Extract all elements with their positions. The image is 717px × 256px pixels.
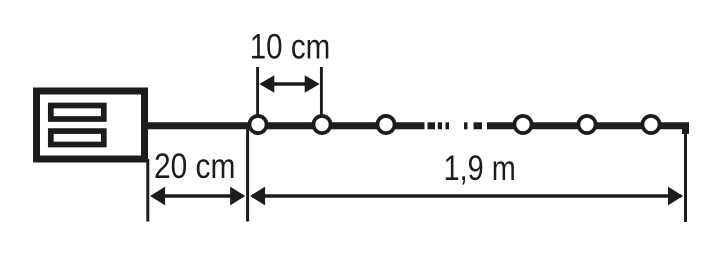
dimension 20cm: left extension line (below plug box) — [146, 159, 149, 222]
dimension 10cm: right arrowhead — [305, 75, 320, 93]
wire: main lead from plug box to first bulb and on (solid left part) — [148, 122, 425, 129]
dimension 20cm: right extension line (below bulb L1) — [246, 124, 249, 222]
dimension 10cm: right extension line (at bulb L2) — [320, 67, 323, 115]
dimension 1,9m: right arrowhead — [668, 187, 683, 206]
bulb L5 — [578, 116, 595, 133]
bulb L1 — [249, 116, 266, 133]
svg-text:1,9 m: 1,9 m — [444, 148, 516, 187]
dimension 1,9m: right extension line (at wire end) — [684, 126, 687, 222]
dimension 10cm: left extension line (at bulb L1) — [256, 67, 259, 115]
bulb L6 — [642, 116, 659, 133]
dimension 20cm: arrow shaft — [153, 194, 243, 197]
dimension 1,9m: left arrowhead — [250, 187, 265, 206]
bulb L3 — [377, 116, 394, 133]
plug slot upper — [51, 106, 104, 120]
wire: solid right part ending in downward corner — [487, 126, 686, 134]
dimension 20cm: right arrowhead — [230, 187, 245, 206]
plug slot lower — [51, 131, 104, 144]
dimension 1,9m: arrow shaft — [252, 194, 681, 197]
bulb L2 — [313, 116, 330, 133]
svg-text:20 cm: 20 cm — [154, 147, 235, 186]
svg-text:10 cm: 10 cm — [250, 27, 331, 66]
bulb L4 — [514, 116, 531, 133]
plug box (controller/plug) outer case — [37, 91, 145, 159]
dimension 10cm: arrow shaft — [262, 82, 317, 85]
wire: dashed continuation (break in drawing) — [428, 122, 483, 129]
dimension 20cm: left arrowhead — [150, 187, 165, 206]
dimension 10cm: left arrowhead — [259, 75, 274, 93]
